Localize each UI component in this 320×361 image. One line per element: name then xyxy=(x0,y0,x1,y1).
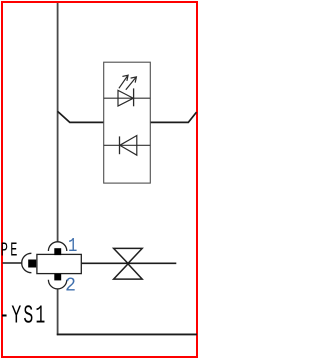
svg-text:1: 1 xyxy=(68,237,77,258)
svg-text:2: 2 xyxy=(65,275,76,297)
svg-text:-YS1: -YS1 xyxy=(0,301,45,331)
svg-text:PE: PE xyxy=(1,240,18,262)
